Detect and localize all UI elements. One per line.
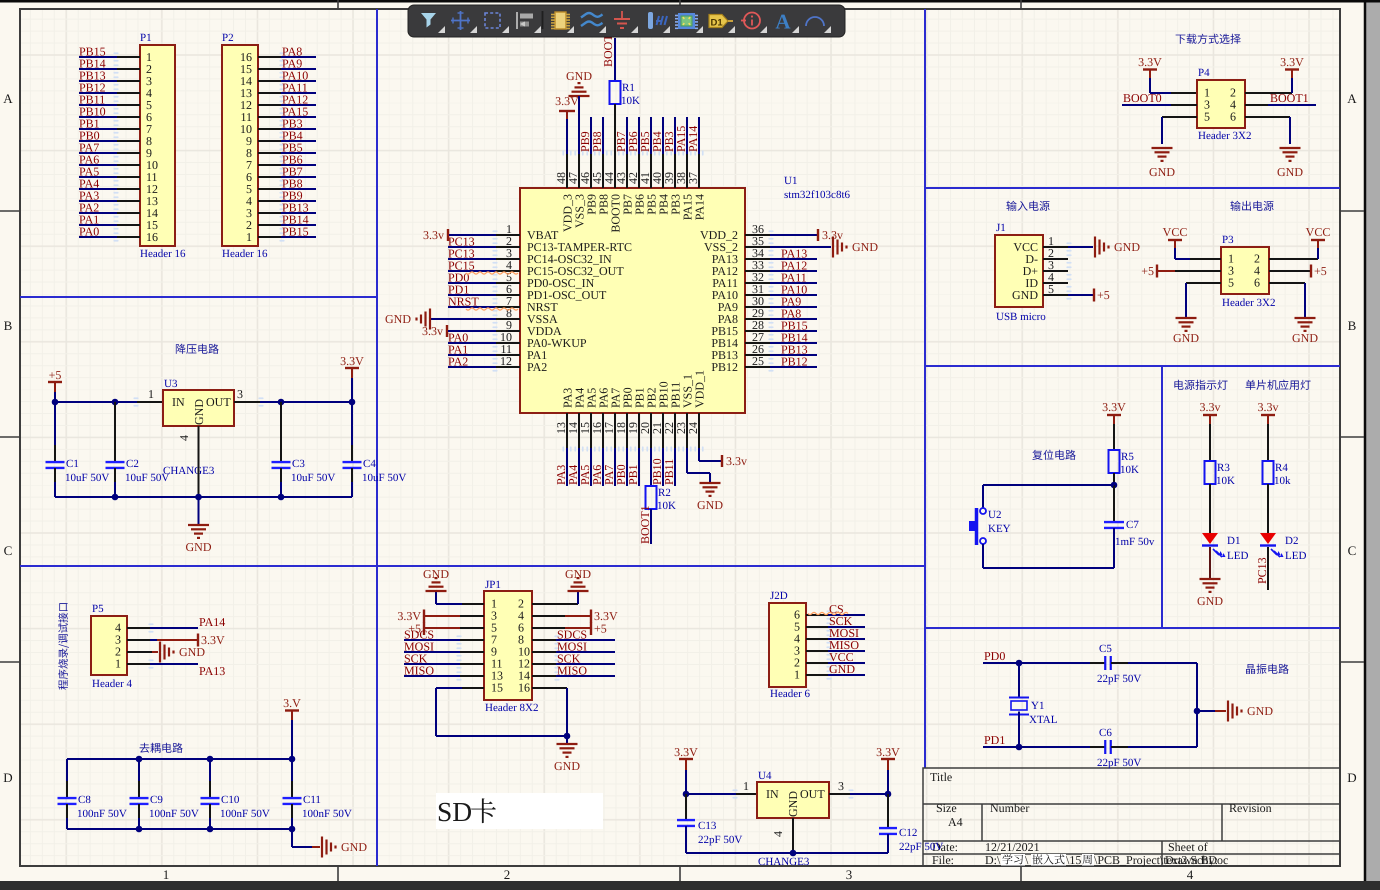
wire U1 pin3 PC13 — [448, 258, 496, 260]
svg-text:6: 6 — [1254, 276, 1260, 290]
wire PB11 to P1 pin 5 — [79, 104, 117, 106]
svg-text:D: D — [3, 770, 12, 785]
svg-text:GND: GND — [554, 759, 580, 773]
wire 3.3v to R4 — [1267, 424, 1269, 461]
wire PB15 to P1 pin 1 — [79, 56, 117, 58]
wire J2D GND — [806, 674, 828, 676]
svg-text:24: 24 — [686, 422, 700, 434]
toolbar icon wires — [581, 13, 603, 26]
svg-text:PA13: PA13 — [199, 664, 225, 678]
wire U1 top PA15 — [686, 117, 688, 154]
pin 39 U1 top — [674, 154, 676, 188]
svg-text:3.3v: 3.3v — [423, 228, 444, 242]
wire 3.3v to R3 — [1209, 424, 1211, 461]
wire JP1 right MOSI — [532, 651, 556, 653]
wire reset loop top — [983, 484, 1114, 486]
workspace bottom strip — [0, 881, 1380, 890]
compile squiggle NRST — [466, 308, 518, 310]
wire JP1 pin1 to GND — [462, 603, 484, 605]
capacitor C5 — [1090, 662, 1105, 664]
wire U1 pin4 PC15 — [448, 270, 496, 272]
svg-text:10uF 50V: 10uF 50V — [291, 472, 335, 484]
svg-text:VCC: VCC — [1163, 225, 1188, 239]
pin 37 U1 top — [698, 154, 700, 188]
power +5 P3 right — [1310, 265, 1312, 278]
capacitor C12 — [887, 794, 889, 828]
ground J1 — [1094, 237, 1096, 258]
svg-text:LED: LED — [1285, 550, 1306, 562]
power 3.3V reset — [1107, 414, 1121, 416]
pin 25 U1 right — [745, 366, 770, 368]
compile squiggle PC15 — [466, 272, 518, 274]
svg-text:3: 3 — [237, 387, 243, 401]
toolbar icon arc — [806, 17, 824, 26]
wire JP1 pin5 +5 — [460, 627, 484, 629]
wire PB8 from P2 pin 5 — [258, 188, 281, 190]
wire JP1 left MISO — [460, 675, 484, 677]
svg-text:Header 16: Header 16 — [140, 248, 186, 260]
svg-text:J1: J1 — [996, 222, 1006, 234]
pin 15 U1 bottom — [590, 413, 592, 448]
junction C4 top — [349, 399, 356, 406]
svg-text:C3: C3 — [292, 458, 305, 470]
pin 20 U1 bottom — [650, 413, 652, 448]
svg-text:Header 16: Header 16 — [222, 248, 268, 260]
wire 3.3V down to rail — [351, 378, 353, 402]
wire U1 top PB5 — [650, 117, 652, 154]
ground JP1 bottom — [557, 743, 578, 745]
power 3.V decoupling — [285, 709, 299, 711]
svg-text:R4: R4 — [1275, 462, 1288, 474]
junction PD0 — [1016, 660, 1023, 667]
capacitor C3 10uF — [280, 402, 282, 445]
svg-text:U2: U2 — [988, 509, 1001, 521]
section title 复位电路 — [1032, 450, 1075, 460]
junction C3 bottom — [278, 494, 285, 501]
wire J2D SCK — [806, 626, 828, 628]
svg-text:GND: GND — [697, 498, 723, 512]
wire JP1 right SDCS — [532, 639, 556, 641]
svg-text:10uF 50V: 10uF 50V — [65, 472, 109, 484]
wire U1 VSS_1 to GND — [686, 448, 688, 473]
svg-text:4: 4 — [177, 435, 191, 441]
svg-text:R3: R3 — [1217, 462, 1230, 474]
workspace right strip — [1366, 0, 1380, 890]
svg-text:R2: R2 — [658, 487, 671, 499]
floating toolbar — [408, 5, 845, 37]
svg-text:3.3V: 3.3V — [1138, 55, 1162, 69]
svg-text:CHANGE3: CHANGE3 — [758, 856, 810, 868]
svg-text:C11: C11 — [303, 794, 321, 806]
resistor R2 — [646, 486, 657, 509]
section divider horizontal y566 — [20, 565, 925, 567]
wire JP1 pin6 +5 — [532, 627, 565, 629]
wire P3 pin4 — [1269, 270, 1310, 272]
wire U1 bottom PA3 — [566, 448, 568, 486]
svg-text:GND: GND — [1173, 331, 1199, 345]
svg-text:3.3V: 3.3V — [876, 745, 900, 759]
svg-text:MISO: MISO — [557, 664, 587, 678]
svg-text:GND: GND — [192, 399, 206, 425]
pin 1 U1 left — [496, 234, 520, 236]
junction U4 out — [885, 791, 892, 798]
resistor R4 — [1263, 461, 1274, 484]
svg-text:PB1: PB1 — [626, 464, 640, 485]
power VCC P3 right — [1311, 239, 1325, 241]
led D1 — [1202, 533, 1218, 544]
power 3.3v U1 pin9 — [446, 325, 448, 337]
svg-text:Revision: Revision — [1229, 801, 1272, 815]
connector P3 — [1221, 247, 1269, 294]
pin 9 U1 left — [496, 330, 520, 332]
svg-text:+5: +5 — [594, 622, 607, 636]
svg-text:PD1: PD1 — [984, 733, 1005, 747]
svg-text:GND: GND — [1012, 288, 1038, 302]
toolbar icon sheet entry — [648, 12, 653, 29]
power 3.3v D1 chain — [1203, 414, 1217, 416]
toolbar icon D1 tag — [709, 15, 728, 28]
crystal Y1 — [1018, 663, 1020, 698]
ground JP1 left top — [435, 577, 438, 579]
svg-text:Header 8X2: Header 8X2 — [485, 702, 538, 714]
svg-text:10K: 10K — [621, 95, 640, 107]
ground P3 left — [1176, 317, 1197, 319]
svg-text:BOOT0: BOOT0 — [1123, 91, 1162, 105]
svg-text:IN: IN — [766, 787, 779, 801]
wire decoupling bottom rail — [67, 828, 292, 830]
svg-text:NRST: NRST — [448, 295, 479, 309]
svg-text:SD: SD — [437, 796, 472, 827]
pin 22 U1 bottom — [674, 413, 676, 448]
wire J2D CS — [806, 614, 828, 616]
wire U1 right PA9 — [770, 306, 817, 308]
wire 3.V to rail — [291, 720, 293, 759]
wire U3 GND pin 4 — [198, 426, 200, 497]
workspace top strip — [0, 0, 1380, 3]
svg-text:KEY: KEY — [988, 523, 1011, 535]
svg-text:D1: D1 — [1227, 535, 1240, 547]
svg-text:10K: 10K — [1216, 475, 1235, 487]
svg-text:22pF 50V: 22pF 50V — [698, 834, 742, 846]
wire PB15 from P2 pin 1 — [258, 236, 281, 238]
wire U1 right PA12 — [770, 270, 817, 272]
pin 46 U1 top — [590, 154, 592, 188]
wire U1 bottom PB10 — [662, 448, 664, 486]
pin 21 U1 bottom — [662, 413, 664, 448]
wire U1 PA1 — [448, 354, 496, 356]
svg-text:22pF 50V: 22pF 50V — [899, 841, 943, 853]
svg-text:GND: GND — [565, 567, 591, 581]
wire PD1 row — [983, 746, 1090, 748]
svg-text:C8: C8 — [78, 794, 91, 806]
pin 10 U1 left — [496, 342, 520, 344]
connector J2D — [769, 603, 806, 687]
wire U1 right PB12 — [770, 366, 817, 368]
svg-text:+5: +5 — [49, 368, 62, 382]
wire P4 pin5 left — [1162, 116, 1197, 118]
power 3.3V U4 left — [679, 758, 693, 760]
section title 下载方式选择 — [1176, 34, 1241, 44]
svg-text:C9: C9 — [150, 794, 163, 806]
capacitor C4 10uF — [351, 402, 353, 445]
connector P1 — [140, 45, 175, 246]
toolbar icon component — [555, 12, 566, 29]
svg-text:3: 3 — [838, 779, 844, 793]
power +5 P3 left — [1156, 265, 1158, 278]
svg-text:100nF 50V: 100nF 50V — [77, 808, 127, 820]
junction U4 in — [683, 791, 690, 798]
wire J2D MISO — [806, 650, 828, 652]
ground U1 pin47 — [578, 82, 581, 84]
wire PA8 from P2 pin 16 — [258, 56, 281, 58]
wire R1 to U1 pin44 — [614, 104, 616, 154]
resistor R1 — [610, 81, 621, 104]
wire P3 pin1 — [1174, 248, 1176, 259]
capacitor C13 — [685, 794, 687, 820]
wire D1 to GND — [1209, 547, 1211, 579]
pin 4 U1 left — [496, 270, 520, 272]
svg-text:+5: +5 — [1097, 288, 1110, 302]
toolbar icon no-erc — [744, 13, 760, 29]
junction C11 bottom — [289, 826, 296, 833]
power 3.3v U1 VDD_1 — [721, 455, 723, 467]
wire 3.3V to R5 — [1113, 424, 1115, 450]
svg-text:C: C — [4, 543, 13, 558]
wire JP1 left SDCS — [460, 639, 484, 641]
wire P4 pin2 right — [1245, 92, 1292, 94]
wire PA10 from P2 pin 14 — [258, 80, 281, 82]
wire JP1 right SCK — [532, 663, 556, 665]
SD card highlight box — [436, 793, 603, 829]
svg-text:1: 1 — [246, 230, 252, 244]
section title 单片机应用灯 — [1246, 380, 1311, 390]
toolbar icon ground — [621, 11, 623, 19]
wire U1 top PB6 — [638, 117, 640, 154]
svg-text:Y1: Y1 — [1031, 700, 1044, 712]
ground P4 right — [1280, 147, 1301, 149]
svg-text:GND: GND — [786, 791, 800, 817]
svg-text:P4: P4 — [1198, 67, 1210, 79]
section divider horizontal y188 right column — [925, 187, 1340, 189]
pin 19 U1 bottom — [638, 413, 640, 448]
svg-text:Number: Number — [990, 801, 1029, 815]
svg-text:P2: P2 — [222, 32, 234, 44]
wire PA5 to P1 pin 11 — [79, 176, 117, 178]
capacitor C2 10uF — [114, 402, 116, 445]
power 3.3V JP1 left — [423, 610, 425, 623]
power +5 J1 — [1093, 289, 1095, 302]
pin 16 U1 bottom — [602, 413, 604, 448]
section divider vertical x1162 — [1161, 366, 1163, 628]
pin 38 U1 top — [686, 154, 688, 188]
wire P3 pin3 — [1158, 270, 1175, 272]
wire U1 right PB14 — [770, 342, 817, 344]
capacitor C1 10uF — [54, 402, 56, 445]
svg-text:OUT: OUT — [206, 395, 231, 409]
svg-text:R5: R5 — [1121, 451, 1134, 463]
wire U1 pin8 VSSA — [431, 318, 496, 320]
capacitor C6 — [1090, 746, 1105, 748]
junction reset — [1111, 482, 1118, 489]
svg-text:A4: A4 — [948, 815, 963, 829]
junction JP1 gnd loop — [564, 733, 571, 740]
wire 3.3V to U4 IN — [685, 770, 687, 794]
svg-text:3.V: 3.V — [283, 696, 301, 710]
pin 47 U1 top — [578, 154, 580, 188]
wire U1 right PB13 — [770, 354, 817, 356]
svg-text:Header 6: Header 6 — [770, 688, 811, 700]
wire PB13 to P1 pin 3 — [79, 80, 117, 82]
power +5 JP1 left — [423, 622, 425, 635]
svg-text:10K: 10K — [1120, 464, 1139, 476]
wire PB1 to P1 pin 7 — [79, 128, 117, 130]
svg-text:100nF 50V: 100nF 50V — [149, 808, 199, 820]
ground decoupling — [321, 837, 323, 858]
power 3.3v U1 pin1 — [447, 229, 449, 241]
svg-text:C6: C6 — [1099, 727, 1112, 739]
wire R2 to BOOT1 — [650, 509, 652, 544]
svg-text:5: 5 — [1204, 110, 1210, 124]
wire reset loop bottom — [982, 544, 984, 568]
wire U1 right PA10 — [770, 294, 817, 296]
pin 13 U1 bottom — [566, 413, 568, 448]
svg-text:C2: C2 — [126, 458, 139, 470]
svg-text:D:\: D:\ — [985, 853, 1001, 867]
junction PD1 — [1016, 744, 1023, 751]
svg-text:1mF 50v: 1mF 50v — [1115, 536, 1155, 548]
wire U4 GND pin4 — [792, 818, 794, 853]
section title 电源指示灯 — [1174, 380, 1227, 390]
wire U1 bottom PA4 — [578, 448, 580, 486]
wire U1 top PA14 — [698, 117, 700, 154]
svg-text:B: B — [1348, 318, 1357, 333]
svg-text:Size: Size — [936, 801, 957, 815]
svg-text:A: A — [1347, 91, 1357, 106]
pin 41 U1 top — [650, 154, 652, 188]
svg-text:PD0: PD0 — [984, 649, 1005, 663]
junction U4 gnd rail — [790, 850, 797, 857]
svg-text:GND: GND — [179, 645, 205, 659]
pin 24 U1 bottom — [698, 413, 700, 448]
svg-text:C10: C10 — [221, 794, 240, 806]
svg-text:PB11: PB11 — [662, 459, 676, 485]
svg-text:4: 4 — [771, 831, 785, 837]
svg-text:MISO: MISO — [404, 664, 434, 678]
svg-text:+5: +5 — [1141, 264, 1154, 278]
pin 6 U1 left — [496, 294, 520, 296]
regulator U4 — [757, 782, 829, 818]
wire U1 right PA11 — [770, 282, 817, 284]
resistor R3 — [1205, 461, 1216, 484]
svg-text:16: 16 — [518, 681, 530, 695]
pin 28 U1 right — [745, 330, 770, 332]
svg-text:P5: P5 — [92, 603, 104, 615]
wire U1 pin6 PD1 — [448, 294, 496, 296]
section title 输出电源 — [1230, 201, 1273, 211]
svg-text:USB micro: USB micro — [996, 311, 1046, 323]
svg-text:25: 25 — [752, 354, 764, 368]
power +5 buck — [48, 381, 62, 383]
svg-text:5: 5 — [1048, 282, 1054, 296]
wire U1 pin48 — [566, 119, 568, 154]
svg-text:U4: U4 — [758, 770, 772, 782]
svg-text:GND: GND — [341, 840, 367, 854]
junction C9 top — [136, 756, 143, 763]
svg-text:U3: U3 — [164, 378, 178, 390]
svg-text:PA2: PA2 — [527, 360, 547, 374]
svg-text:stm32f103c8t6: stm32f103c8t6 — [784, 189, 850, 201]
wire U1 top PB8 — [602, 117, 604, 154]
power 3.3V U1 pin48 — [559, 110, 575, 112]
section divider horizontal y628 right column — [925, 627, 1340, 629]
svg-text:3: 3 — [846, 867, 853, 882]
junction C2 top — [112, 399, 119, 406]
svg-text:1: 1 — [743, 779, 749, 793]
svg-text:37: 37 — [686, 172, 700, 184]
wire PA6 to P1 pin 10 — [79, 164, 117, 166]
wire U1 bottom PA6 — [602, 448, 604, 486]
svg-text:3.3V: 3.3V — [340, 354, 364, 368]
wire PB14 to P1 pin 2 — [79, 68, 117, 70]
wire PD0 row — [983, 662, 1090, 664]
svg-text:XTAL: XTAL — [1029, 714, 1058, 726]
svg-text:3.3v: 3.3v — [1258, 400, 1279, 414]
toolbar icon align — [516, 12, 518, 29]
svg-text:PA14: PA14 — [686, 126, 700, 152]
pin 12 U1 left — [496, 366, 520, 368]
wire PA9 from P2 pin 15 — [258, 68, 281, 70]
pin 17 U1 bottom — [614, 413, 616, 448]
wire PA12 from P2 pin 12 — [258, 104, 281, 106]
wire PB0 to P1 pin 8 — [79, 140, 117, 142]
power 3.3V JP1 right — [590, 610, 592, 623]
ground crystal — [1227, 701, 1229, 722]
wire PA2 to P1 pin 14 — [79, 212, 117, 214]
wire U1 pin47 — [578, 96, 580, 154]
pin 35 U1 right — [745, 246, 770, 248]
svg-text:\15: \15 — [1066, 853, 1081, 867]
power VCC P3 left — [1168, 239, 1182, 241]
wire P5 pin 4 PA14 — [127, 627, 150, 629]
svg-text:15: 15 — [491, 681, 503, 695]
wire U1 bottom PA7 — [614, 448, 616, 486]
pin 8 U1 left — [496, 318, 520, 320]
svg-text:5: 5 — [1228, 276, 1234, 290]
connector JP1 — [484, 591, 532, 700]
power 3.3V P5 — [197, 634, 199, 647]
wire P4 pin6 right — [1245, 116, 1290, 118]
svg-text:A: A — [775, 10, 791, 34]
connector P4 — [1197, 80, 1245, 128]
junction C9 bottom — [136, 826, 143, 833]
svg-text:1: 1 — [163, 867, 170, 882]
wire PA1 to P1 pin 15 — [79, 224, 117, 226]
wire U1 top PB3 — [674, 117, 676, 154]
wire P5 pin 2 GND — [127, 651, 152, 653]
svg-text:PB12: PB12 — [711, 360, 738, 374]
pin 32 U1 right — [745, 282, 770, 284]
svg-text:12: 12 — [500, 354, 512, 368]
power 3.3V buck out — [345, 367, 359, 369]
pin 34 U1 right — [745, 258, 770, 260]
wire rail to GND decoupling — [291, 829, 293, 847]
switch U2 KEY — [980, 508, 986, 514]
svg-text:Drawn By:: Drawn By: — [1165, 853, 1218, 867]
svg-text:3.3V: 3.3V — [674, 745, 698, 759]
ground P3 right — [1295, 317, 1316, 319]
junction C10 top — [207, 756, 214, 763]
regulator U3 — [163, 390, 234, 426]
